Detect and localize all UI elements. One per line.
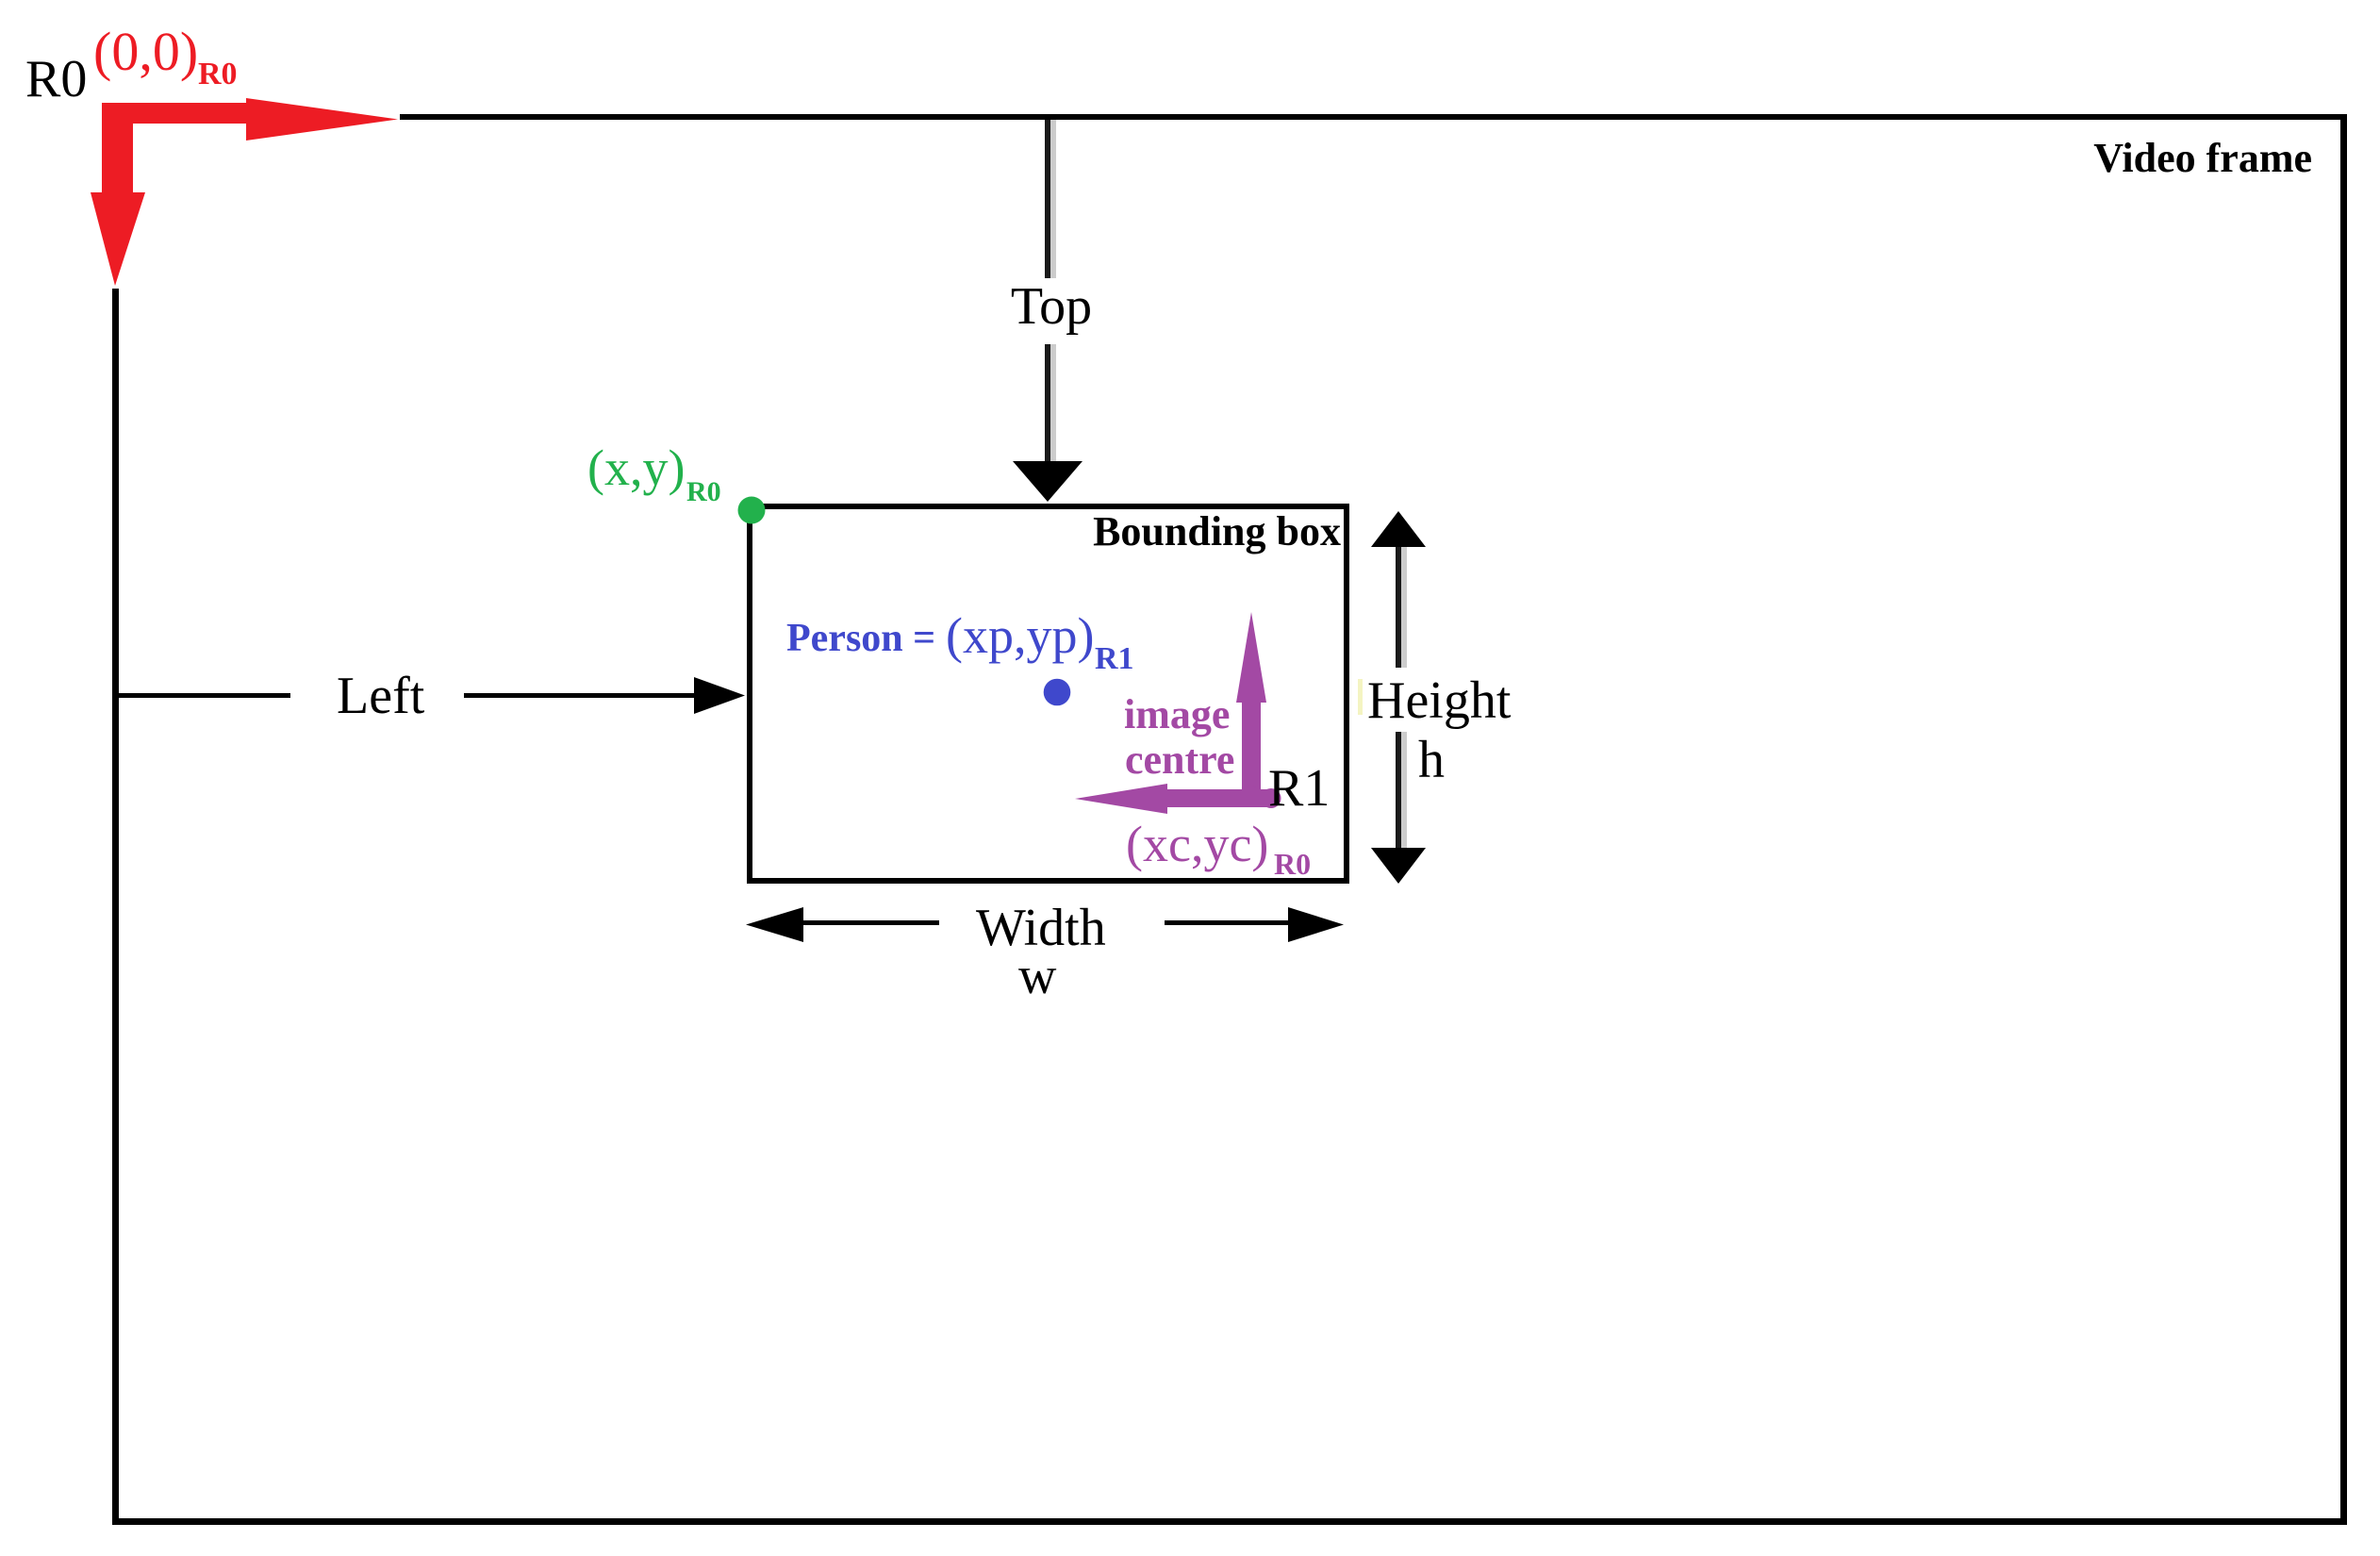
svg-text:(0,0): (0,0) bbox=[93, 21, 198, 82]
svg-text:Video frame: Video frame bbox=[2093, 135, 2312, 181]
svg-text:w: w bbox=[1018, 947, 1057, 1005]
svg-text:centre: centre bbox=[1125, 737, 1234, 783]
svg-text:(x,y): (x,y) bbox=[587, 439, 685, 496]
Height double arrow bbox=[1371, 511, 1426, 884]
svg-text:R0: R0 bbox=[25, 50, 87, 108]
svg-text:R0: R0 bbox=[1274, 847, 1311, 881]
svg-text:(xp,yp): (xp,yp) bbox=[946, 607, 1094, 664]
svg-text:Height: Height bbox=[1367, 671, 1512, 730]
Top arrow bbox=[1013, 120, 1083, 502]
bounding box bbox=[750, 506, 1347, 881]
svg-text:h: h bbox=[1418, 731, 1445, 789]
svg-text:R0: R0 bbox=[198, 57, 238, 91]
Width double arrow bbox=[746, 907, 1344, 942]
person point blue dot bbox=[1044, 679, 1071, 706]
svg-text:(xc,yc): (xc,yc) bbox=[1126, 816, 1268, 872]
Left arrow bbox=[119, 677, 745, 714]
svg-text:R1: R1 bbox=[1268, 759, 1330, 818]
svg-text:image: image bbox=[1124, 691, 1230, 737]
R1 axes purple arrows (image centre) bbox=[1075, 612, 1281, 814]
svg-text:Bounding box: Bounding box bbox=[1093, 508, 1341, 555]
svg-text:Person =: Person = bbox=[786, 617, 935, 660]
svg-text:R0: R0 bbox=[686, 476, 721, 507]
svg-text:R1: R1 bbox=[1095, 641, 1134, 676]
R0 axes red arrows bbox=[91, 98, 398, 286]
yellow tick bbox=[1358, 679, 1363, 715]
corner point (x,y) green dot bbox=[738, 497, 766, 524]
svg-text:Top: Top bbox=[1011, 277, 1092, 336]
svg-text:Left: Left bbox=[337, 667, 425, 725]
